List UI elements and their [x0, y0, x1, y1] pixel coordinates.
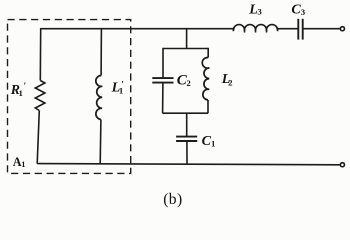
terminal top right: [340, 27, 344, 31]
wire C1 branch upper: [186, 113, 188, 136]
wire tank right upper: [207, 48, 209, 58]
wire tank top: [163, 48, 208, 50]
capacitor C1: [176, 137, 197, 141]
wire R1 branch top: [39, 28, 41, 81]
inductor L1: [96, 76, 102, 120]
wire bottom horizontal: [37, 164, 340, 165]
wire L1 branch top: [100, 28, 102, 76]
wire junction drop to tank: [186, 29, 188, 49]
label L2: [221, 72, 233, 87]
label C3: [291, 3, 305, 18]
svg-text:3: 3: [301, 7, 306, 17]
svg-text:2: 2: [186, 78, 191, 88]
label L1': [111, 80, 125, 95]
svg-text:3: 3: [257, 7, 262, 17]
wire R1 branch bottom: [37, 111, 39, 164]
svg-text:A: A: [13, 155, 22, 169]
dashed network box A1: [8, 20, 131, 174]
wire tank left upper: [162, 48, 164, 78]
inductor L2: [202, 57, 209, 99]
svg-text:(b): (b): [163, 191, 182, 208]
wire tank left lower: [162, 83, 164, 114]
wire C1 branch lower: [186, 141, 188, 164]
wire top right of C3 to terminal: [303, 28, 340, 30]
label C1: [202, 134, 216, 149]
terminal bottom right: [340, 163, 344, 167]
inductor L3: [233, 25, 277, 32]
label L3: [248, 2, 262, 17]
capacitor C2: [152, 78, 173, 83]
wire tank right lower: [207, 100, 209, 113]
svg-text:1: 1: [19, 88, 23, 98]
svg-text:′: ′: [24, 82, 27, 92]
wire top right of L3: [276, 28, 298, 30]
label R1': [10, 82, 27, 98]
wire top horizontal: [41, 28, 235, 30]
svg-text:1: 1: [21, 160, 25, 169]
svg-text:1: 1: [211, 138, 215, 148]
label C2: [177, 72, 192, 88]
wire L1 branch bottom: [99, 120, 102, 165]
resistor R1': [35, 81, 45, 111]
capacitor C3: [298, 19, 302, 40]
label A1: [13, 155, 26, 169]
svg-text:′: ′: [121, 81, 124, 91]
svg-text:2: 2: [228, 78, 233, 88]
wire tank bottom: [163, 112, 208, 114]
